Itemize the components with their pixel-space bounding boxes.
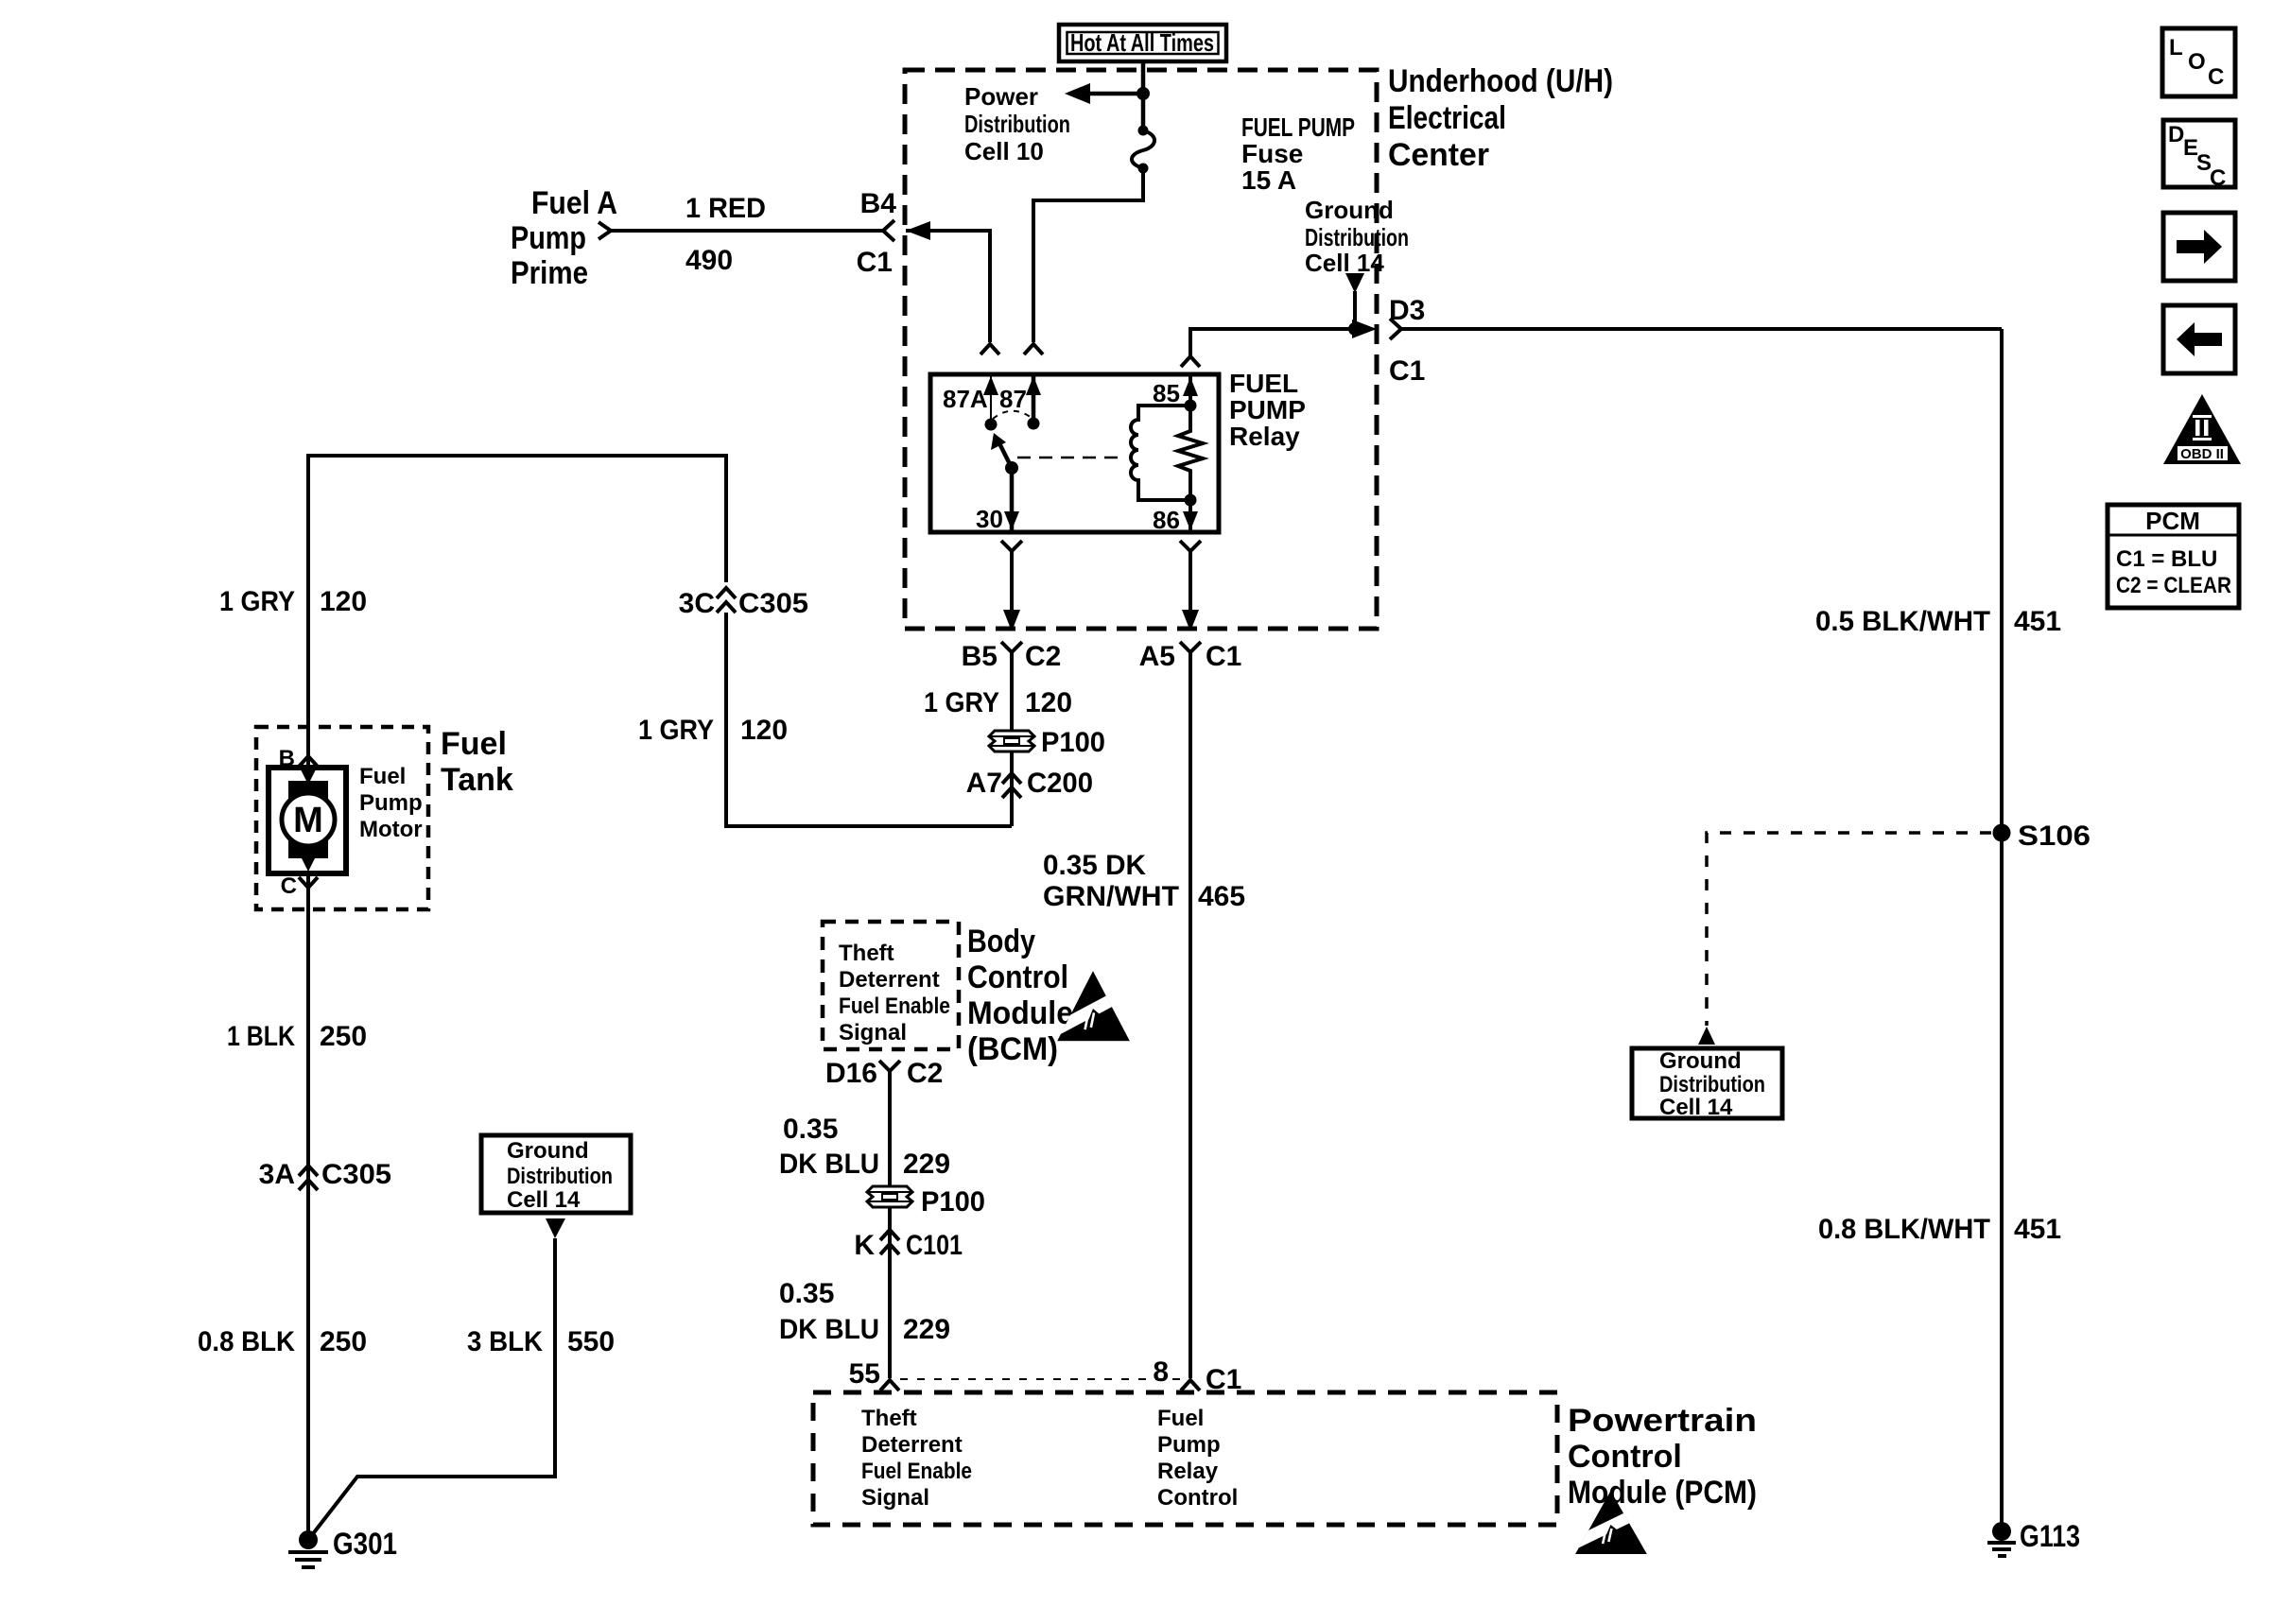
wire A5 down to PCM pin 8: [1189, 664, 1192, 1378]
icon DESC: [2163, 120, 2235, 191]
label: Underhood (U/H) Electrical Center: [1388, 63, 1613, 173]
svg-text:Fuel: Fuel: [1157, 1406, 1204, 1431]
connector Y at D16 C2: [879, 1061, 900, 1082]
svg-text:85: 85: [1153, 379, 1180, 407]
arrowhead power distribution: [1065, 83, 1090, 104]
Fuel Tank dashed enclosure: [256, 727, 428, 909]
svg-text:0.8 BLK: 0.8 BLK: [198, 1326, 295, 1357]
wire fuse to relay pin 87: [1033, 168, 1143, 342]
svg-text:Distribution: Distribution: [964, 110, 1070, 138]
wire right rail D3 to G113: [2000, 329, 2004, 1531]
fuel pump motor M1: [269, 768, 346, 873]
icon arrow right: [2163, 213, 2235, 281]
relay FUEL PUMP Relay body: [930, 374, 1219, 532]
svg-text:1 GRY: 1 GRY: [924, 687, 999, 718]
connector chevron at relay pin 87: [1024, 344, 1043, 354]
connector C305 double chevron (3A): [299, 1166, 318, 1190]
svg-text:0.5 BLK/WHT: 0.5 BLK/WHT: [1815, 606, 1990, 637]
pin label A5 / C1: [1139, 641, 1242, 672]
wire 3 BLK 550 to G301: [308, 1238, 555, 1540]
svg-text:A5: A5: [1139, 641, 1175, 672]
svg-text:229: 229: [903, 1149, 950, 1180]
svg-text:C1 = BLU: C1 = BLU: [2116, 546, 2217, 572]
triangle out of ground distribution box: [546, 1218, 565, 1238]
svg-text:FUEL: FUEL: [1229, 369, 1298, 398]
splice node S106: [1993, 824, 2011, 842]
wire P100 to C101: [888, 1207, 892, 1378]
connector chevron at PCM pin 8: [1181, 1380, 1200, 1391]
svg-text:86: 86: [1153, 506, 1180, 534]
svg-text:Theft: Theft: [861, 1406, 917, 1431]
relay coil winding: [1131, 406, 1190, 500]
svg-text:Distribution: Distribution: [507, 1164, 613, 1189]
icon OBD II triangle: [2163, 394, 2241, 464]
svg-text:Fuel Enable: Fuel Enable: [861, 1459, 972, 1484]
svg-text:Cell 10: Cell 10: [964, 137, 1044, 165]
connector chevron at fuel pump prime lead: [599, 222, 611, 239]
connector chevron at PCM pin 55: [880, 1380, 899, 1391]
label: 1 BLK 250: [227, 1021, 367, 1052]
label: 0.35 DK BLU 229 (upper): [779, 1114, 950, 1180]
junction node at hot feed: [1136, 87, 1150, 100]
svg-text:C1: C1: [1389, 355, 1425, 387]
svg-text:G113: G113: [2020, 1519, 2080, 1553]
label: 3 BLK 550: [467, 1326, 615, 1357]
svg-text:PUMP: PUMP: [1229, 395, 1306, 424]
connector chevron at relay pin 87A: [980, 344, 999, 354]
svg-text:Ground: Ground: [507, 1138, 589, 1164]
svg-text:250: 250: [320, 1326, 367, 1357]
svg-text:Cell 14: Cell 14: [1305, 249, 1384, 277]
svg-text:229: 229: [903, 1314, 950, 1345]
svg-text:Control: Control: [1568, 1439, 1682, 1475]
svg-text:D: D: [2168, 122, 2184, 147]
svg-text:Cell 14: Cell 14: [507, 1187, 581, 1213]
label: Body Control Module (BCM): [967, 924, 1073, 1067]
svg-text:Module (PCM): Module (PCM): [1568, 1475, 1757, 1511]
arrowhead at enclosure edge B5: [1003, 610, 1020, 631]
svg-text:Hot At All Times: Hot At All Times: [1070, 28, 1214, 57]
label: FUEL PUMP Fuse 15 A: [1241, 112, 1355, 195]
icon LOC: [2162, 28, 2235, 96]
icon arrow left: [2163, 305, 2235, 373]
pin label A7 / C200: [966, 768, 1093, 799]
connector chevron at tank pin B: [299, 756, 318, 767]
svg-text:C: C: [281, 873, 297, 899]
svg-text:1 RED: 1 RED: [685, 193, 766, 224]
Ground Distribution Cell 14 box (left): [481, 1135, 631, 1213]
svg-text:Ground: Ground: [1305, 196, 1394, 224]
relay coil shunt resistor: [1178, 408, 1203, 497]
svg-text:(BCM): (BCM): [967, 1031, 1058, 1067]
dashed actuation link switch to coil: [1017, 457, 1119, 459]
ESD warning symbol (PCM): [1570, 1491, 1652, 1554]
wire ground distribution to D3 wire: [1353, 291, 1357, 329]
svg-text:3 BLK: 3 BLK: [467, 1326, 543, 1357]
label: FUEL PUMP Relay: [1229, 369, 1306, 451]
svg-text:490: 490: [685, 245, 733, 276]
svg-text:Motor: Motor: [359, 817, 423, 842]
PCM connector legend table: [2108, 505, 2239, 608]
Ground Distribution Cell 14 box (right): [1632, 1048, 1782, 1120]
ground G113: [1987, 1522, 2016, 1556]
svg-text:C2: C2: [907, 1058, 943, 1089]
svg-text:B5: B5: [962, 641, 998, 672]
svg-text:Pump: Pump: [359, 790, 423, 816]
svg-text:451: 451: [2014, 1214, 2061, 1245]
label: Powertrain Control Module (PCM): [1568, 1403, 1757, 1511]
label: 1 GRY 120 (B5 drop): [924, 687, 1072, 718]
label: 0.35 DK BLU 229 (lower): [779, 1278, 950, 1345]
svg-text:OBD II: OBD II: [2180, 446, 2224, 462]
pin label B4 / C1: [857, 188, 897, 278]
svg-text:0.35 DK: 0.35 DK: [1043, 850, 1146, 881]
wire from Hot At All Times down: [1141, 61, 1146, 130]
connector chevron B4: [883, 220, 894, 241]
pin label K / C101: [854, 1230, 963, 1261]
fuse FUEL PUMP 15 A: [1132, 126, 1154, 174]
svg-text:Deterrent: Deterrent: [839, 967, 940, 993]
svg-text:1 BLK: 1 BLK: [227, 1021, 295, 1052]
connector Y at A5 C1: [1180, 642, 1201, 664]
svg-text:Tank: Tank: [441, 762, 513, 798]
svg-text:87A: 87A: [943, 385, 988, 413]
svg-text:55: 55: [849, 1358, 880, 1390]
svg-text:L: L: [2169, 35, 2183, 60]
Underhood Electrical Center dashed enclosure: [905, 70, 1377, 629]
svg-text:Control: Control: [967, 959, 1068, 995]
svg-text:0.35: 0.35: [783, 1114, 838, 1145]
svg-text:Fuel: Fuel: [359, 764, 406, 789]
svg-text:Relay: Relay: [1229, 422, 1300, 451]
Powertrain Control Module dashed enclosure: [813, 1392, 1557, 1525]
wire 1 RED 490 (fuel pump prime to B4): [611, 229, 883, 233]
svg-text:Pump: Pump: [1157, 1432, 1221, 1458]
svg-text:Pump: Pump: [511, 220, 586, 256]
relay pin 86 lead: [1183, 494, 1198, 531]
arrowhead into underhood at B4: [906, 221, 930, 240]
svg-text:Cell 14: Cell 14: [1659, 1095, 1733, 1120]
ESD warning symbol (BCM): [1052, 971, 1136, 1041]
label: Fuel Tank: [441, 726, 513, 798]
svg-text:Fuel A: Fuel A: [531, 185, 617, 221]
svg-text:G301: G301: [333, 1527, 397, 1561]
label: Theft Deterrent Fuel Enable Signal (PCM): [861, 1406, 972, 1511]
svg-text:465: 465: [1198, 881, 1245, 912]
svg-text:30: 30: [976, 505, 1003, 533]
arrowhead at enclosure edge A5: [1182, 610, 1199, 631]
svg-text:FUEL PUMP: FUEL PUMP: [1241, 112, 1355, 142]
svg-text:87: 87: [999, 385, 1027, 413]
svg-text:GRN/WHT: GRN/WHT: [1043, 881, 1179, 912]
wire P100 to C200: [1010, 752, 1014, 826]
label: Power Distribution Cell 10: [964, 82, 1070, 165]
label: Fuel A Pump Prime: [511, 185, 617, 291]
connector C200 double chevron (A7): [1002, 773, 1021, 798]
Body Control Module dashed enclosure: [823, 922, 959, 1049]
wire relay 30 down across enclosure edge: [1010, 560, 1014, 628]
svg-text:Fuse: Fuse: [1241, 139, 1303, 168]
ground distribution drop triangle: [1345, 273, 1364, 293]
svg-text:Signal: Signal: [839, 1020, 907, 1045]
svg-text:K: K: [854, 1230, 875, 1261]
ground G301: [288, 1530, 328, 1567]
arrowhead exiting underhood at D3: [1352, 320, 1377, 338]
svg-text:Power: Power: [964, 82, 1038, 111]
connector Y at B5 C2: [1001, 642, 1022, 664]
svg-text:O: O: [2188, 49, 2206, 75]
wire B4 to relay pin 87A: [906, 231, 990, 342]
svg-text:Prime: Prime: [511, 255, 588, 291]
label: Fuel Pump Motor: [359, 764, 423, 842]
label: 0.8 BLK 250: [198, 1326, 367, 1357]
pin label 3C / C305: [679, 588, 808, 619]
connector Y below relay pin 86: [1180, 541, 1201, 560]
connector C305 double chevron (3C): [717, 588, 736, 613]
svg-text:C200: C200: [1027, 768, 1093, 799]
svg-text:C1: C1: [857, 247, 893, 278]
svg-text:Underhood (U/H): Underhood (U/H): [1388, 63, 1613, 99]
label: 0.5 BLK/WHT 451: [1815, 606, 2061, 637]
wire relay 86 down across enclosure edge: [1189, 560, 1192, 628]
relay pin 30 lead: [1004, 468, 1019, 530]
relay pin 87 contact: [1026, 374, 1041, 430]
svg-text:Module: Module: [967, 995, 1073, 1031]
wire C305 riser to A7 elbow: [726, 613, 1012, 826]
wire to power distribution (arrow left): [1085, 92, 1143, 96]
svg-text:3A: 3A: [259, 1159, 295, 1190]
svg-text:Fuel Enable: Fuel Enable: [839, 993, 950, 1019]
relay switch arm: [991, 433, 1018, 475]
svg-text:Distribution: Distribution: [1659, 1072, 1765, 1097]
wire D3 to right rail: [1401, 327, 2002, 331]
svg-text:DK BLU: DK BLU: [779, 1149, 879, 1180]
svg-text:C101: C101: [906, 1230, 963, 1261]
connector chevron at relay pin 85: [1181, 356, 1200, 367]
label: Fuel Pump Relay Control: [1157, 1406, 1238, 1511]
dashed branch S106 to ground distribution: [1707, 833, 1991, 1026]
connector C101 double chevron (K): [880, 1230, 899, 1254]
svg-text:Ground: Ground: [1659, 1048, 1742, 1074]
svg-text:A7: A7: [966, 768, 1002, 799]
svg-text:C2 = CLEAR: C2 = CLEAR: [2116, 573, 2231, 598]
svg-text:M: M: [293, 801, 323, 840]
svg-text:Control: Control: [1157, 1485, 1238, 1511]
svg-text:0.35: 0.35: [779, 1278, 834, 1309]
svg-text:250: 250: [320, 1021, 367, 1052]
wire D16 down to P100: [888, 1071, 892, 1187]
relay pin 85 lead: [1183, 374, 1198, 412]
svg-text:B4: B4: [860, 188, 897, 219]
svg-text:8: 8: [1153, 1356, 1169, 1388]
svg-text:120: 120: [320, 586, 367, 617]
svg-text:1 GRY: 1 GRY: [638, 715, 714, 746]
label: 1 GRY 120 (left feed): [219, 586, 367, 617]
svg-text:P100: P100: [1041, 727, 1105, 758]
relay pin 87A contact: [983, 374, 998, 431]
pin label D16 / C2: [825, 1058, 943, 1089]
svg-text:C305: C305: [738, 588, 808, 619]
connector chevron at tank pin C: [299, 877, 318, 888]
wire motor to G301: [306, 873, 310, 1532]
svg-text:P100: P100: [921, 1186, 985, 1218]
svg-text:Powertrain: Powertrain: [1568, 1403, 1757, 1439]
svg-text:Center: Center: [1388, 137, 1489, 173]
wire relay pin 85 up to D3 run: [1190, 329, 1370, 356]
junction node on D3 wire: [1348, 322, 1362, 336]
svg-text:C305: C305: [321, 1159, 391, 1190]
svg-text:Electrical: Electrical: [1388, 100, 1506, 136]
connector Y below relay pin 30: [1001, 541, 1022, 560]
svg-text:120: 120: [740, 715, 788, 746]
svg-text:DK BLU: DK BLU: [779, 1314, 879, 1345]
svg-text:PCM: PCM: [2145, 507, 2200, 535]
pin label 3A / C305: [259, 1159, 391, 1190]
svg-text:Body: Body: [967, 924, 1035, 959]
label: 0.35 DK GRN/WHT 465: [1043, 850, 1245, 912]
dashed arc between 87A and 87: [993, 411, 1032, 419]
label: Ground Distribution Cell 14 (underhood): [1305, 196, 1409, 277]
svg-text:Theft: Theft: [839, 941, 894, 966]
svg-text:D3: D3: [1389, 295, 1425, 326]
svg-text:C: C: [2208, 64, 2224, 90]
svg-text:1 GRY: 1 GRY: [219, 586, 295, 617]
svg-text:Relay: Relay: [1157, 1459, 1219, 1484]
svg-text:Signal: Signal: [861, 1485, 929, 1511]
triangle into ground distribution box (right): [1698, 1027, 1715, 1045]
grommet P100 (theft deterrent): [867, 1186, 912, 1207]
svg-text:451: 451: [2014, 606, 2061, 637]
label: 1 GRY 120 (riser): [638, 715, 788, 746]
svg-text:Fuel: Fuel: [441, 726, 507, 762]
svg-text:C1: C1: [1206, 641, 1241, 672]
pin label B5 / C2: [962, 641, 1062, 672]
svg-text:Deterrent: Deterrent: [861, 1432, 963, 1458]
label: 0.8 BLK/WHT 451: [1818, 1214, 2061, 1245]
svg-text:S106: S106: [2018, 821, 2091, 852]
connector chevron D3: [1390, 319, 1401, 339]
wire top horizontal feed to fuel tank: [308, 456, 726, 766]
pin label 8 / C1: [1153, 1356, 1241, 1395]
svg-text:C: C: [2210, 165, 2226, 191]
svg-text:15 A: 15 A: [1241, 165, 1296, 195]
PCM connector face dashed line: [900, 1378, 1180, 1380]
label: 1 RED 490: [685, 193, 766, 276]
grommet P100 (fuel feed): [989, 731, 1034, 752]
svg-text:3C: 3C: [679, 588, 715, 619]
svg-text:0.8 BLK/WHT: 0.8 BLK/WHT: [1818, 1214, 1990, 1245]
pin label D3 / C1: [1389, 295, 1425, 387]
wire B5 down to P100: [1010, 664, 1014, 732]
svg-text:550: 550: [567, 1326, 615, 1357]
svg-text:Distribution: Distribution: [1305, 223, 1409, 251]
svg-text:C2: C2: [1025, 641, 1061, 672]
label: Theft Deterrent Fuel Enable Signal (BCM): [839, 941, 950, 1045]
power source box "Hot At All Times": [1059, 25, 1226, 61]
svg-text:120: 120: [1025, 687, 1072, 718]
svg-text:D16: D16: [825, 1058, 877, 1089]
